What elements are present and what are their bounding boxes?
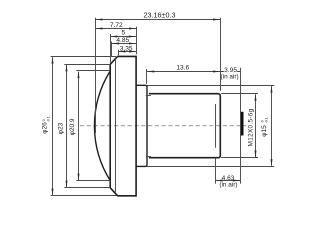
svg-text:(in air): (in air)	[219, 182, 237, 189]
phi15 top extension line	[146, 85, 274, 87]
phi26 bottom extension line	[51, 195, 117, 197]
svg-text:4.85: 4.85	[116, 37, 129, 44]
extension line for 13.6 at neck face	[146, 69, 148, 84]
flange front face	[109, 64, 111, 188]
threaded barrel outline M12	[149, 94, 220, 158]
optical axis centerline	[80, 125, 246, 127]
phi26 top extension line	[51, 56, 116, 58]
flange rear face	[135, 56, 137, 197]
phi23 bottom extension line	[64, 187, 110, 189]
dimension line 4.63 (in air)	[215, 180, 240, 182]
phi15 bottom extension line	[146, 166, 274, 168]
svg-text:M12X0.5-6g: M12X0.5-6g	[248, 108, 255, 146]
svg-text:3.35: 3.35	[120, 45, 133, 52]
rear lens element edge inside barrel	[215, 104, 217, 148]
phi20.9 top extension line	[76, 70, 110, 72]
dimension line 23.16+-0.3	[95, 19, 220, 21]
flange top chamfer	[110, 56, 117, 64]
svg-text:φ15: φ15	[261, 125, 268, 137]
svg-text:φ23: φ23	[58, 122, 65, 134]
extension line at rear glass surface	[215, 159, 217, 184]
thread root tick bottom	[146, 156, 151, 158]
svg-text:23.16±0.3: 23.16±0.3	[144, 10, 176, 19]
svg-text:(in air): (in air)	[221, 73, 239, 80]
phi20.9 dimension line	[78, 72, 80, 181]
dimension line 4.85	[112, 43, 136, 45]
svg-text:13.6: 13.6	[176, 65, 189, 72]
phi15 dimension line	[271, 86, 273, 166]
image plane / sensor thick mark	[241, 112, 244, 136]
svg-text:φ20.9: φ20.9	[69, 118, 76, 135]
dimension line 3.35	[118, 51, 136, 53]
bezel inner edge line	[115, 59, 117, 194]
M12 bottom extension line	[221, 157, 258, 159]
extension line at flange rear for 7.72/5/4.85/3.35	[136, 27, 138, 55]
flange top edge	[117, 55, 136, 57]
flange bottom edge	[117, 195, 136, 197]
dimension line 7.72	[95, 28, 136, 30]
dimension line 13.6	[147, 71, 220, 73]
label 3.95	[224, 67, 237, 72]
phi20.9 bottom extension line	[76, 180, 110, 182]
front dome lens element (arc)	[94, 71, 110, 181]
extension line for 3.35	[118, 50, 120, 56]
shared extension line at lens vertex	[95, 18, 97, 133]
image plane extension line	[240, 68, 242, 184]
thread root tick top	[146, 95, 151, 97]
M12 dimension line	[255, 94, 257, 157]
flange bottom chamfer	[110, 188, 117, 196]
neck top edge (phi15 cylinder)	[136, 85, 147, 166]
extension line for 4.85	[111, 42, 113, 58]
M12 top extension line	[221, 93, 258, 95]
dimension line 5	[110, 36, 136, 38]
svg-text:7.72: 7.72	[110, 22, 123, 29]
phi23 dimension line	[66, 65, 68, 187]
dimension line 3.95 (in air)	[220, 71, 240, 73]
phi23 top extension line	[64, 64, 110, 66]
svg-text:φ26: φ26	[42, 122, 49, 134]
phi26 dimension line	[52, 57, 54, 195]
extension line at barrel rear end	[220, 18, 222, 91]
extension line for 5	[110, 34, 112, 63]
svg-text:5: 5	[121, 30, 125, 37]
